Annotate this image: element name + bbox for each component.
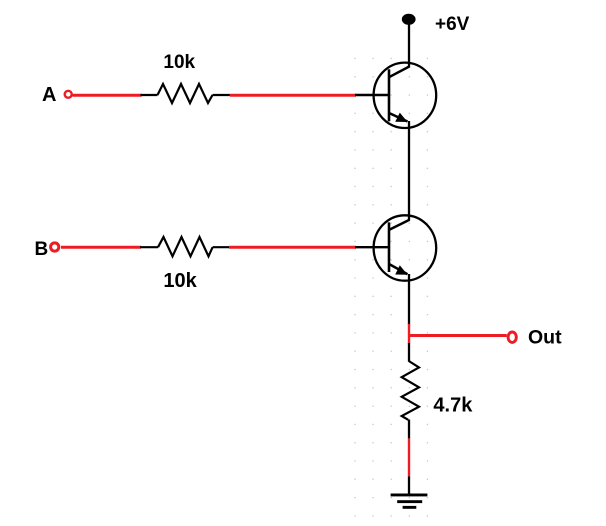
wire: +6V dot to Q1 collector [408,24,410,68]
wire: R2 to Q2 base (red) [229,246,356,249]
node B terminal (red open circle) [51,243,59,251]
node: Out junction (red vertical segment) [408,324,410,344]
svg-text:10k: 10k [163,270,197,292]
wire: ground lead (black segment) [408,476,410,494]
ground [391,494,428,509]
node A terminal (red open circle) [65,91,72,98]
node Out terminal (red open circle) [508,332,516,342]
transistor Q1 [374,63,437,128]
resistor R2 10k [140,237,229,256]
svg-text:10k: 10k [163,52,195,73]
wire: ground lead (red segment) [408,438,410,476]
wire: R3 to ground lead (black) [408,420,410,439]
wire: A terminal to R1 (red) [73,94,142,97]
wire: B terminal to R2 (red) [61,246,141,249]
transistor Q2 [374,215,437,280]
wire: Q1 emitter to Q2 collector [408,121,410,221]
svg-text:+6V: +6V [435,14,470,35]
resistor R1 10k [141,84,230,103]
wire: R1 to Q1 base (red) [230,94,356,97]
wire: Out (red horizontal) [408,334,507,337]
svg-text:Out: Out [528,327,562,349]
svg-text:A: A [42,84,56,106]
power terminal dot (+6V) [402,14,416,25]
svg-text:4.7k: 4.7k [433,394,473,416]
wire: Q2 emitter down to Out junction (black) [408,274,410,325]
resistor R3 4.7k [402,361,419,420]
wire: red to Q1 base (black) [355,94,389,96]
wire: junction to R3 (black) [408,343,410,362]
wire: red to Q2 base (black) [355,246,389,248]
svg-text:B: B [35,239,49,260]
